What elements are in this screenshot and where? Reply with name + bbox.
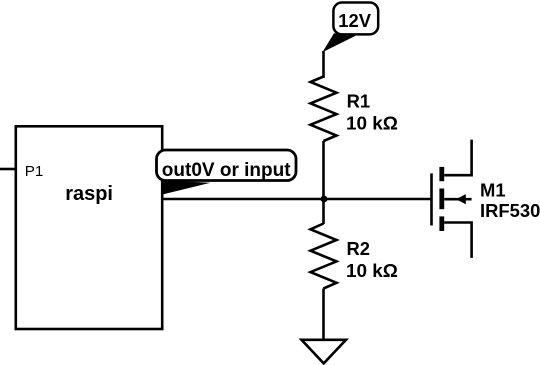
wire junction to R2 [322,199,325,224]
svg-text:10 kΩ: 10 kΩ [346,261,398,282]
svg-text:M1: M1 [480,180,506,201]
pin P1 [0,163,43,180]
source wire [444,223,471,258]
wire R1 to junction [322,141,325,199]
svg-text:out0V or input: out0V or input [162,160,291,181]
body arrow wire [444,198,471,201]
channel bar top [439,167,444,181]
wire R2 to ground [322,289,325,341]
ground [302,340,347,364]
svg-text:10 kΩ: 10 kΩ [346,114,398,135]
resistor R2 [311,224,398,289]
node junction dot [321,196,328,203]
svg-text:IRF530: IRF530 [480,200,540,221]
wire raspi to gate [162,198,432,201]
svg-text:raspi: raspi [65,183,113,205]
callout out0V or input [157,150,297,195]
gate line [430,173,433,225]
channel bar middle [439,189,444,210]
IC raspi box [16,126,162,329]
svg-text:R1: R1 [347,90,371,111]
channel bar bottom [439,216,444,231]
transistor M1 MOSFET [432,140,540,258]
svg-text:P1: P1 [25,163,44,180]
svg-text:12V: 12V [338,10,371,31]
resistor R1 [311,77,398,142]
body arrowhead [456,194,466,204]
power source 12V callout [322,3,378,53]
drain wire [444,140,471,176]
wire 12V to R1 [322,51,325,78]
svg-text:R2: R2 [347,238,371,259]
